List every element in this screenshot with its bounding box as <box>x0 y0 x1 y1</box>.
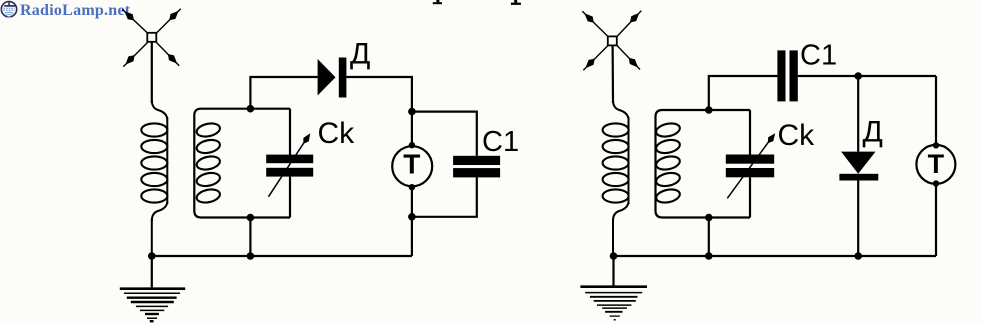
secondary coil L4 loops <box>655 121 681 204</box>
RadioLamp.net logo icon <box>1 2 16 18</box>
svg-text:Д: Д <box>350 38 370 71</box>
node: diode branch junction <box>854 72 862 80</box>
ground GND1 <box>120 256 185 321</box>
cropped-text remnant 2 <box>511 0 521 5</box>
primary coil L1 <box>152 100 168 256</box>
phone T2 <box>916 76 955 256</box>
variable capacitor Ck plates <box>266 155 313 177</box>
svg-text:C1: C1 <box>800 40 837 72</box>
top wire with C1 <box>709 76 936 110</box>
svg-text:Ck: Ck <box>318 117 356 150</box>
node: bus-ground junction <box>148 252 156 260</box>
svg-text:Ck: Ck <box>778 119 816 152</box>
diode D1 <box>318 59 336 96</box>
antenna A1 center square <box>147 33 156 42</box>
tuned loop wires <box>194 109 290 218</box>
ground GND2 <box>580 256 647 320</box>
node: right loop top junction <box>705 106 713 114</box>
antenna A2 arrowheads <box>584 13 639 68</box>
node: right bus-diode junction <box>854 252 862 260</box>
primary coil L3 <box>613 100 629 256</box>
antenna A2 center square <box>608 36 617 45</box>
capacitor C1 plates <box>453 156 500 178</box>
node: right bus-ground junction <box>610 252 618 260</box>
Ck arrow <box>269 137 309 197</box>
svg-text:T: T <box>928 149 945 179</box>
bottom wires <box>152 217 412 256</box>
node: bus-loop junction <box>247 252 255 260</box>
node: right bus-loop junction <box>705 252 713 260</box>
capacitor C2 plates <box>777 50 797 101</box>
node: T bottom junction <box>408 213 416 221</box>
wire to diode <box>250 77 412 112</box>
svg-text:T: T <box>403 148 420 179</box>
diode D2 <box>857 76 859 256</box>
svg-text:C1: C1 <box>482 126 519 158</box>
capacitor C1 wires <box>412 112 477 217</box>
node: diode out junction <box>408 108 416 116</box>
svg-text:RadioLamp.net: RadioLamp.net <box>20 2 131 19</box>
node: loop top junction <box>247 105 255 113</box>
antenna A2 lines <box>582 11 641 103</box>
node: loop bottom junction <box>247 214 255 222</box>
secondary coil L2 loops <box>195 121 221 204</box>
right bottom wires <box>613 218 936 257</box>
right tuned loop wires <box>656 110 751 218</box>
node: right loop bottom junction <box>705 214 713 222</box>
Ck2 arrow <box>727 137 772 199</box>
antenna A1 arrowheads <box>124 11 178 65</box>
variable capacitor Ck2 plates <box>726 155 774 178</box>
antenna A1 lines <box>122 9 180 103</box>
svg-text:Д: Д <box>863 116 883 149</box>
cropped-text remnant 1 <box>433 0 442 4</box>
phone T1 <box>392 112 432 217</box>
